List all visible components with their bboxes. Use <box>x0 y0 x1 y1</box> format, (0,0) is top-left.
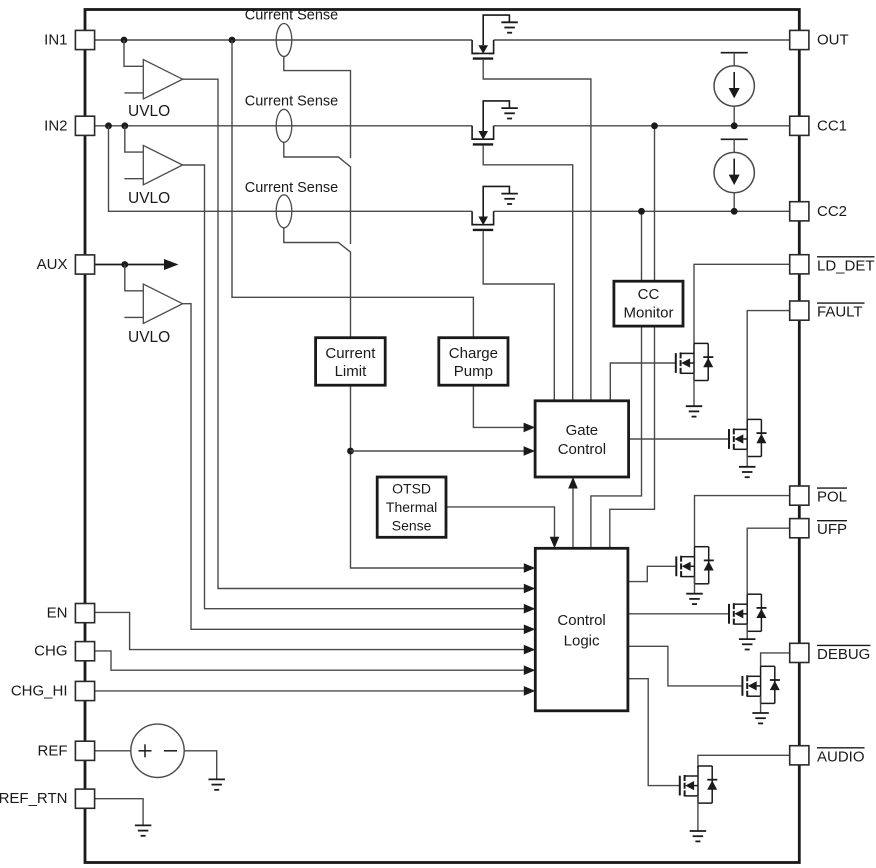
svg-text:IN1: IN1 <box>44 32 67 49</box>
svg-text:Sense: Sense <box>392 518 432 534</box>
svg-text:Current Sense: Current Sense <box>245 8 339 24</box>
pin OUT <box>790 30 849 49</box>
wire Control Logic to Gate Control <box>572 479 574 548</box>
svg-text:LD_DET: LD_DET <box>817 257 875 274</box>
wire IN1 to Charge Pump <box>232 40 473 338</box>
wire Q8 source to ground <box>760 696 762 713</box>
svg-text:REF: REF <box>38 742 68 759</box>
svg-text:IN2: IN2 <box>44 117 67 134</box>
wire IN1 rail to OUT <box>95 39 791 41</box>
wire IN2 drop to row3 <box>109 126 791 212</box>
wire Q1 gate to Gate Control <box>483 60 591 401</box>
current sense ellipse CS2 <box>276 109 292 142</box>
wire Gate Control to Q5 gate <box>629 438 729 440</box>
wire Control Logic to Q8 gate <box>628 646 742 686</box>
wire POL pin to Q6 drain <box>695 496 790 547</box>
svg-text:Logic: Logic <box>564 632 600 649</box>
arrow into Control Logic input 1 <box>524 563 536 573</box>
pin AUDIO <box>790 746 865 766</box>
wire Control Logic to Q6 gate <box>628 566 676 581</box>
svg-text:UVLO: UVLO <box>128 329 170 346</box>
pin UFP <box>790 519 847 539</box>
arrow Control Logic input CHG_HI <box>524 686 536 696</box>
wire CC2 tap to Control Logic <box>591 211 642 548</box>
ground Q3 body <box>501 194 517 204</box>
ground REF_RTN <box>135 825 152 835</box>
svg-text:AUX: AUX <box>37 256 68 273</box>
transistor Q2 pass FET row2 <box>472 101 509 144</box>
ground Q9 <box>690 831 707 841</box>
wire V1 to ground <box>184 751 217 780</box>
voltage source V1 REF <box>131 724 184 777</box>
svg-text:CC1: CC1 <box>817 117 847 134</box>
arrow into Control Logic top (OTSD) <box>550 537 560 549</box>
transistor Q5 (FAULT) <box>729 419 767 456</box>
wire Q4 source to ground <box>693 373 695 406</box>
wire Q6 source to ground <box>694 577 696 594</box>
wire CHG to Control Logic <box>95 651 525 670</box>
wire Q7 source to ground <box>746 624 748 639</box>
node I2-CC2 dot <box>731 208 738 215</box>
arrow into Gate Control (current limit) <box>524 446 536 456</box>
wire REF_RTN to ground <box>95 799 144 826</box>
svg-text:Current Sense: Current Sense <box>245 94 339 110</box>
pin CC2 <box>790 202 847 221</box>
label U3 UVLO <box>128 329 170 346</box>
current source I1 (CC1) <box>714 53 754 126</box>
svg-text:Pump: Pump <box>454 363 493 380</box>
wire Q3 gate to Gate Control <box>483 231 554 401</box>
wire REF to V1 <box>95 750 131 752</box>
block Control Logic <box>535 548 628 711</box>
svg-text:Gate: Gate <box>566 422 599 439</box>
wire Q2 gate to Gate Control <box>483 146 573 401</box>
ground Q8 <box>752 713 769 723</box>
arrow Control Logic input UVLO1 <box>524 584 536 594</box>
node CC1 tap dot <box>651 122 658 129</box>
wire CS3 tap joins bus <box>284 228 351 338</box>
ground Q4 <box>686 406 703 416</box>
transistor Q1 pass FET row1 <box>472 15 509 59</box>
transistor Q8 (DEBUG) <box>742 666 780 703</box>
pin CHG_HI <box>11 681 95 700</box>
op-amp U2 UVLO (IN2) <box>124 126 524 609</box>
wire AUX stub <box>95 264 165 266</box>
label U1 UVLO <box>128 103 170 120</box>
current sense ellipse CS1 <box>276 24 292 57</box>
svg-text:REF_RTN: REF_RTN <box>0 790 68 807</box>
pin EN <box>47 604 95 623</box>
wire Gate Control to Q4 gate <box>610 363 675 401</box>
svg-text:Control: Control <box>557 612 605 629</box>
current source I2 (CC2) <box>714 139 754 211</box>
wire DEBUG pin to Q8 drain <box>761 653 790 666</box>
ground Q1 body <box>501 22 517 32</box>
ground Q6 <box>686 594 703 604</box>
pin POL <box>790 486 847 506</box>
ground Q2 body <box>501 108 517 118</box>
transistor Q4 (LD_DET) <box>676 343 714 380</box>
arrow Control Logic input CHG <box>524 665 536 675</box>
wire CS1 tap to current-limit bus <box>284 56 351 158</box>
wire CC1 tap to Control Logic <box>610 126 655 549</box>
label CS1 Current Sense <box>245 8 339 24</box>
arrow into Gate Control (charge pump) <box>524 423 536 433</box>
svg-text:Limit: Limit <box>335 363 368 380</box>
pin IN2 <box>44 116 94 135</box>
wire Current Limit to Control Logic <box>351 385 525 568</box>
svg-text:CHG_HI: CHG_HI <box>11 683 68 700</box>
ground V1 <box>208 779 225 789</box>
ground Q7 <box>739 639 756 649</box>
arrow Control Logic input UVLO3 <box>524 625 536 635</box>
svg-text:Charge: Charge <box>449 345 498 362</box>
wire FAULT pin to Q5 drain <box>747 311 790 420</box>
node IN1-B junction dot <box>229 37 236 44</box>
svg-text:Thermal: Thermal <box>386 499 437 515</box>
node CC2 tap dot <box>638 208 645 215</box>
wire LD_DET pin to Q4 drain <box>694 264 790 343</box>
block Gate Control <box>535 401 629 477</box>
transistor Q7 (UFP) <box>729 594 767 631</box>
transistor Q9 (AUDIO) <box>680 766 718 803</box>
svg-text:Current: Current <box>325 345 376 362</box>
node IN1-A junction dot <box>121 37 128 44</box>
pin FAULT <box>790 301 865 321</box>
pin CHG <box>34 642 94 661</box>
wire Charge Pump to Gate Control <box>473 385 524 427</box>
svg-text:CC: CC <box>638 286 660 303</box>
node I1-CC1 dot <box>731 122 738 129</box>
pin AUX <box>37 255 95 274</box>
wire CS2 tap joins bus <box>284 142 351 244</box>
transistor Q3 pass FET row3 <box>472 186 509 230</box>
op-amp U3 UVLO (AUX) <box>124 265 524 630</box>
pin CC1 <box>790 116 847 135</box>
wire EN to Control Logic <box>95 612 525 649</box>
wire UFP pin to Q7 drain <box>747 528 790 594</box>
ground Q5 <box>739 467 756 477</box>
wire AUDIO pin to Q9 drain <box>698 755 790 768</box>
block Current Limit <box>316 338 386 386</box>
svg-text:Current Sense: Current Sense <box>245 180 339 196</box>
wire Control Logic to Q9 gate <box>628 679 679 786</box>
pin REF <box>38 741 95 760</box>
node AUX junction dot <box>121 261 128 268</box>
pin REF_RTN <box>0 789 95 808</box>
wire CHG_HI to Control Logic <box>95 690 525 692</box>
svg-text:UFP: UFP <box>817 521 847 538</box>
pin LD_DET <box>790 255 875 275</box>
wire IN2 rail to CC1 <box>95 125 791 127</box>
block OTSD Thermal Sense <box>377 477 446 537</box>
svg-text:OTSD: OTSD <box>392 481 431 497</box>
svg-text:CHG: CHG <box>34 643 67 660</box>
svg-text:OUT: OUT <box>817 32 849 49</box>
svg-text:Control: Control <box>558 441 606 458</box>
node current-limit junction dot <box>347 448 354 455</box>
svg-text:EN: EN <box>47 605 68 622</box>
arrow Control Logic input EN <box>524 645 536 655</box>
transistor Q6 (POL) <box>676 547 714 584</box>
block CC Monitor <box>614 281 683 326</box>
wire Control Logic to Q7 gate <box>628 613 729 615</box>
arrow into Gate Control bottom <box>568 477 578 489</box>
arrow AUX output <box>164 259 179 270</box>
wire current-limit branch to Gate Control <box>351 450 525 452</box>
node IN2-A junction dot <box>105 122 112 129</box>
svg-text:UVLO: UVLO <box>128 103 170 120</box>
svg-text:UVLO: UVLO <box>128 190 170 207</box>
label CS3 Current Sense <box>245 180 339 196</box>
label CS2 Current Sense <box>245 94 339 110</box>
wire Q9 source to ground <box>697 796 699 831</box>
current sense ellipse CS3 <box>276 195 292 228</box>
svg-text:AUDIO: AUDIO <box>817 748 865 765</box>
wire OTSD to Control Logic <box>446 507 555 546</box>
svg-text:DEBUG: DEBUG <box>817 646 870 663</box>
node IN2-B junction dot <box>121 122 128 129</box>
pin DEBUG <box>790 643 871 663</box>
block Charge Pump <box>439 338 508 386</box>
pin IN1 <box>44 30 94 49</box>
svg-text:CC2: CC2 <box>817 203 847 220</box>
svg-text:Monitor: Monitor <box>623 304 673 321</box>
svg-text:POL: POL <box>817 489 847 506</box>
op-amp U1 UVLO (IN1) <box>124 40 525 589</box>
wire Q5 source to ground <box>746 449 748 467</box>
label U2 UVLO <box>128 190 170 207</box>
arrow Control Logic input UVLO2 <box>524 604 536 614</box>
svg-text:FAULT: FAULT <box>817 304 863 321</box>
